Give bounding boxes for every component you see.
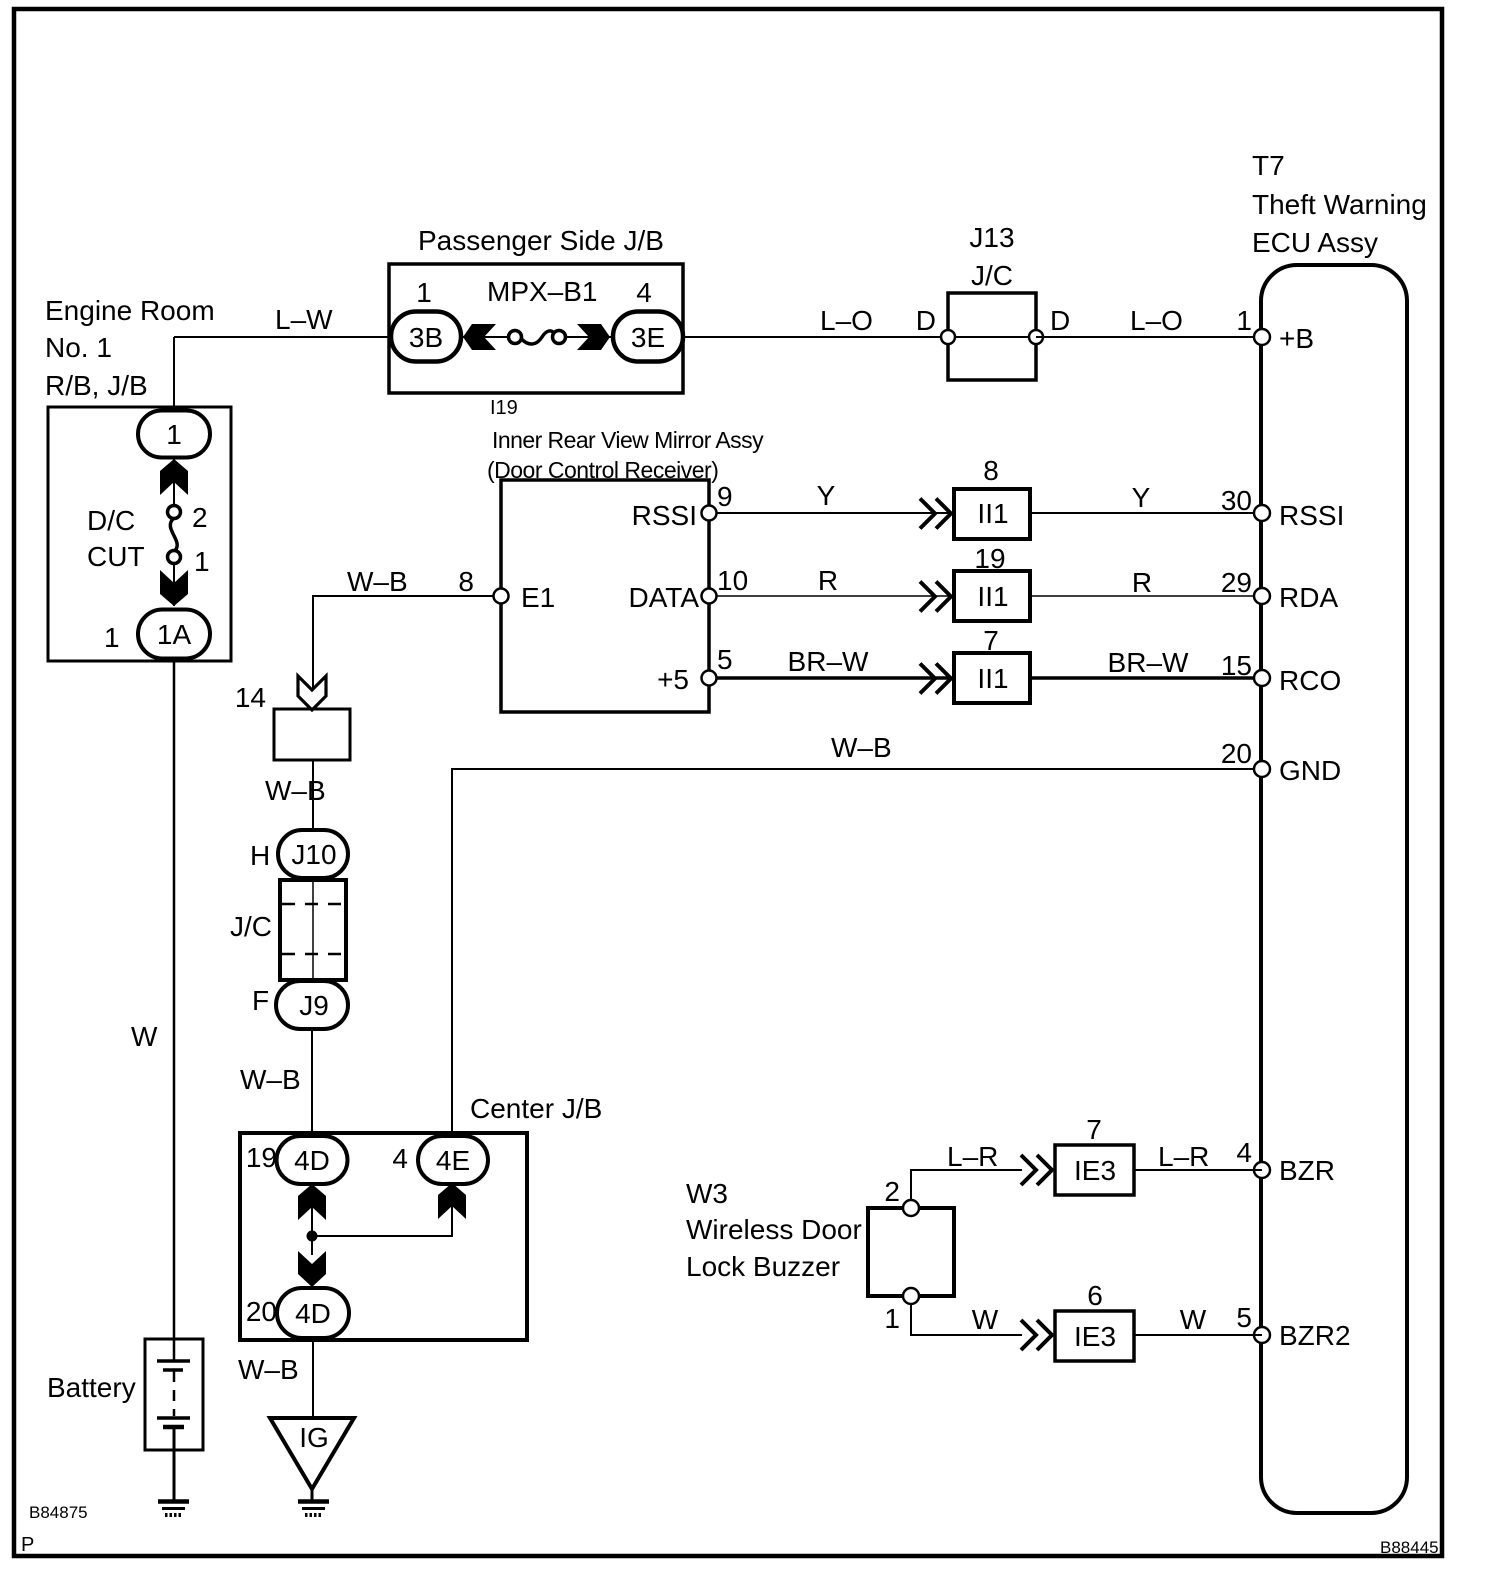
svg-text:Passenger Side J/B: Passenger Side J/B: [418, 225, 664, 256]
svg-text:19: 19: [974, 543, 1005, 574]
svg-text:T7: T7: [1252, 150, 1285, 181]
svg-text:W–B: W–B: [347, 566, 408, 597]
svg-text:W–B: W–B: [831, 732, 892, 763]
fuse D/C CUT squiggle: [170, 519, 177, 553]
junction box Passenger Side J/B: [389, 264, 683, 393]
connector oval 4E: [418, 1136, 488, 1184]
pin RSSI: [1254, 505, 1270, 521]
component box I19 mirror assy: [501, 480, 709, 712]
fusible link terminal: [509, 331, 522, 344]
connector oval 4D (19): [277, 1136, 348, 1184]
arrow up (into 4D 19): [298, 1184, 326, 1220]
splice II1 (19): [954, 571, 1030, 621]
arrow down (into 4D 20): [298, 1251, 326, 1287]
pin 9: [702, 506, 717, 521]
junction box Engine Room: [48, 407, 231, 661]
svg-text:II1: II1: [977, 581, 1008, 612]
svg-text:W: W: [131, 1021, 158, 1052]
svg-text:1A: 1A: [157, 619, 192, 650]
svg-text:1: 1: [194, 546, 210, 577]
svg-text:W: W: [1180, 1304, 1207, 1335]
svg-text:BR–W: BR–W: [788, 646, 869, 677]
node D left: [941, 330, 955, 344]
chevron pair BZR row: [1021, 1155, 1052, 1185]
svg-text:B84875: B84875: [29, 1503, 88, 1522]
svg-text:J/C: J/C: [230, 911, 272, 942]
ground (battery): [158, 1502, 189, 1516]
svg-text:2: 2: [192, 502, 208, 533]
wire battery to ground: [173, 1429, 176, 1502]
svg-text:Battery: Battery: [47, 1372, 136, 1403]
svg-text:R: R: [1132, 567, 1152, 598]
arrow left (into 3B): [463, 324, 496, 350]
junction block J/C: [280, 880, 346, 980]
connector oval J9: [276, 981, 348, 1029]
wire L-O left: [683, 336, 948, 338]
junction box Center J/B: [240, 1133, 527, 1340]
svg-text:No. 1: No. 1: [45, 332, 112, 363]
svg-text:J9: J9: [299, 990, 329, 1021]
svg-text:R/B, J/B: R/B, J/B: [45, 370, 148, 401]
svg-text:Y: Y: [817, 480, 836, 511]
wire W from pin 1: [911, 1296, 1022, 1335]
svg-text:4D: 4D: [295, 1298, 331, 1329]
ground (IG): [298, 1502, 329, 1516]
svg-text:R: R: [818, 565, 838, 596]
component box W3: [868, 1208, 954, 1296]
shield box 14: [274, 709, 350, 760]
svg-text:W–B: W–B: [240, 1064, 301, 1095]
svg-text:L–O: L–O: [820, 305, 873, 336]
svg-text:30: 30: [1221, 485, 1252, 516]
wire IG to ground: [311, 1489, 314, 1502]
label T7 Theft Warning ECU Assy: [1252, 150, 1427, 258]
wire L-W: [174, 336, 391, 338]
svg-text:14: 14: [235, 682, 266, 713]
svg-text:L–R: L–R: [1158, 1141, 1209, 1172]
svg-text:1: 1: [104, 622, 120, 653]
pin GND: [1254, 761, 1270, 777]
svg-text:MPX–B1: MPX–B1: [487, 276, 598, 307]
wire L-R from pin 2: [911, 1170, 1022, 1208]
svg-text:7: 7: [1086, 1114, 1102, 1145]
svg-text:P: P: [21, 1534, 34, 1556]
svg-text:Theft Warning: Theft Warning: [1252, 189, 1427, 220]
chevron pair BR-W row: [920, 664, 951, 694]
wire inside MPX: [461, 336, 510, 338]
shield arrow 14: [298, 676, 326, 710]
svg-text:Engine Room: Engine Room: [45, 295, 215, 326]
svg-text:E1: E1: [521, 582, 555, 613]
label W3 Wireless Door Lock Buzzer: [686, 1178, 862, 1282]
svg-text:10: 10: [717, 565, 748, 596]
connector oval 3E: [613, 312, 683, 362]
wire L-W vertical drop to Engine Room: [173, 337, 175, 411]
label Engine Room No. 1 R/B, J/B: [45, 295, 215, 401]
arrow up (into 4E): [438, 1183, 466, 1219]
fusible link terminal: [553, 331, 566, 344]
svg-text:J/C: J/C: [971, 260, 1013, 291]
svg-text:29: 29: [1221, 567, 1252, 598]
svg-text:L–W: L–W: [275, 304, 333, 335]
wire L-R right: [1134, 1169, 1262, 1171]
battery B1: [145, 1339, 203, 1450]
wire 4E branch: [312, 1183, 452, 1236]
junction block J13: [948, 293, 1036, 380]
svg-text:B88445: B88445: [1380, 1538, 1439, 1557]
svg-text:Wireless Door: Wireless Door: [686, 1214, 862, 1245]
svg-text:8: 8: [983, 455, 999, 486]
svg-text:20: 20: [246, 1296, 277, 1327]
junction dot: [307, 1231, 318, 1242]
svg-text:1: 1: [166, 419, 182, 450]
connector oval J10: [278, 830, 348, 878]
svg-text:W3: W3: [686, 1178, 728, 1209]
svg-text:5: 5: [717, 644, 733, 675]
wire W right: [1134, 1334, 1262, 1336]
wire L-O right: [1036, 336, 1262, 338]
svg-text:RSSI: RSSI: [1279, 500, 1344, 531]
svg-text:II1: II1: [977, 498, 1008, 529]
ECU T7 body: [1261, 265, 1407, 1513]
svg-text:W: W: [972, 1304, 999, 1335]
svg-text:2: 2: [884, 1176, 900, 1207]
svg-text:6: 6: [1087, 1280, 1103, 1311]
svg-text:3B: 3B: [409, 322, 443, 353]
wire Y row: [709, 512, 952, 514]
svg-text:9: 9: [717, 481, 733, 512]
svg-text:F: F: [252, 985, 269, 1016]
connector oval 1: [138, 411, 210, 458]
svg-text:II1: II1: [977, 663, 1008, 694]
svg-text:BZR2: BZR2: [1279, 1320, 1351, 1351]
svg-text:4D: 4D: [294, 1145, 330, 1176]
svg-text:4E: 4E: [436, 1145, 470, 1176]
wire inside Center J/B: [311, 1184, 313, 1255]
pin 2: [903, 1200, 919, 1216]
svg-text:H: H: [250, 840, 270, 871]
svg-text:W–B: W–B: [265, 775, 326, 806]
svg-text:Inner Rear View Mirror Assy: Inner Rear View Mirror Assy: [492, 427, 764, 453]
svg-text:DATA: DATA: [628, 582, 699, 613]
wire W-B below shield box: [312, 760, 314, 831]
pin E1: [494, 589, 509, 604]
svg-text:RDA: RDA: [1279, 582, 1338, 613]
connector oval 3B: [391, 312, 461, 362]
svg-text:Lock Buzzer: Lock Buzzer: [686, 1251, 840, 1282]
svg-text:BR–W: BR–W: [1108, 647, 1189, 678]
svg-text:W–B: W–B: [238, 1354, 299, 1385]
label D/C CUT: [87, 505, 145, 572]
wire BR-W row: [709, 676, 952, 680]
arrow right (into 3E): [577, 324, 610, 350]
svg-text:Y: Y: [1132, 482, 1151, 513]
splice II1 (7): [954, 653, 1030, 703]
svg-text:20: 20: [1221, 738, 1252, 769]
svg-text:RSSI: RSSI: [632, 500, 697, 531]
pin +B: [1254, 329, 1270, 345]
splice IE3 (6): [1055, 1311, 1134, 1361]
arrow up (into 1): [160, 459, 188, 495]
svg-text:L–O: L–O: [1130, 305, 1183, 336]
svg-text:IG: IG: [299, 1422, 329, 1453]
svg-text:1: 1: [416, 277, 432, 308]
fuse D/C CUT terminal 2: [168, 506, 181, 519]
svg-text:L–R: L–R: [947, 1141, 998, 1172]
label J13 J/C: [969, 222, 1014, 291]
svg-text:D: D: [1050, 305, 1070, 336]
svg-text:1: 1: [1236, 305, 1252, 336]
pin 5: [702, 671, 717, 686]
pin BZR: [1254, 1162, 1270, 1178]
wire W battery feed: [173, 658, 176, 1361]
pin RCO: [1254, 670, 1270, 686]
svg-text:4: 4: [1236, 1137, 1252, 1168]
svg-text:J13: J13: [969, 222, 1014, 253]
svg-text:J10: J10: [291, 839, 336, 870]
chevron pair BZR2 row: [1021, 1320, 1052, 1350]
svg-text:+B: +B: [1279, 323, 1314, 354]
splice IE3 (7): [1055, 1145, 1134, 1195]
svg-text:5: 5: [1236, 1302, 1252, 1333]
connector oval 1A: [138, 610, 210, 659]
svg-text:Center J/B: Center J/B: [470, 1093, 602, 1124]
svg-text:4: 4: [392, 1143, 408, 1174]
wire R row: [709, 595, 952, 597]
wire W-B to IG: [312, 1338, 314, 1418]
wire through D/C cut: [173, 458, 175, 507]
svg-text:I19: I19: [490, 397, 518, 419]
svg-text:19: 19: [246, 1142, 277, 1173]
svg-text:15: 15: [1221, 650, 1252, 681]
svg-text:D: D: [916, 305, 936, 336]
svg-text:8: 8: [458, 566, 474, 597]
svg-text:IE3: IE3: [1074, 1155, 1116, 1186]
wire W-B GND: [452, 769, 1262, 1137]
svg-text:BZR: BZR: [1279, 1155, 1335, 1186]
svg-text:GND: GND: [1279, 755, 1341, 786]
svg-text:1: 1: [884, 1303, 900, 1334]
node D right: [1029, 330, 1043, 344]
pin RDA: [1254, 588, 1270, 604]
connector oval 4D (20): [277, 1288, 349, 1338]
svg-text:+5: +5: [657, 664, 689, 695]
svg-text:4: 4: [636, 277, 652, 308]
pin 10: [702, 589, 717, 604]
svg-text:D/C: D/C: [87, 505, 135, 536]
svg-text:3E: 3E: [631, 322, 665, 353]
chevron pair R row: [920, 582, 951, 612]
svg-text:7: 7: [983, 625, 999, 656]
chevron pair Y row: [920, 499, 951, 529]
wire W-B from E1: [313, 596, 501, 709]
arrow down (into 1A): [160, 570, 188, 606]
svg-text:ECU Assy: ECU Assy: [1252, 227, 1378, 258]
wire W-B to Center J/B: [311, 1029, 313, 1137]
splice II1 (8): [954, 489, 1030, 539]
svg-text:RCO: RCO: [1279, 665, 1341, 696]
IG triangle: [270, 1418, 354, 1489]
fusible link squiggle: [521, 331, 555, 344]
pin 1: [903, 1288, 919, 1304]
pin BZR2: [1254, 1327, 1270, 1343]
svg-text:IE3: IE3: [1074, 1321, 1116, 1352]
svg-text:CUT: CUT: [87, 541, 145, 572]
fuse D/C CUT terminal 1: [168, 551, 181, 564]
